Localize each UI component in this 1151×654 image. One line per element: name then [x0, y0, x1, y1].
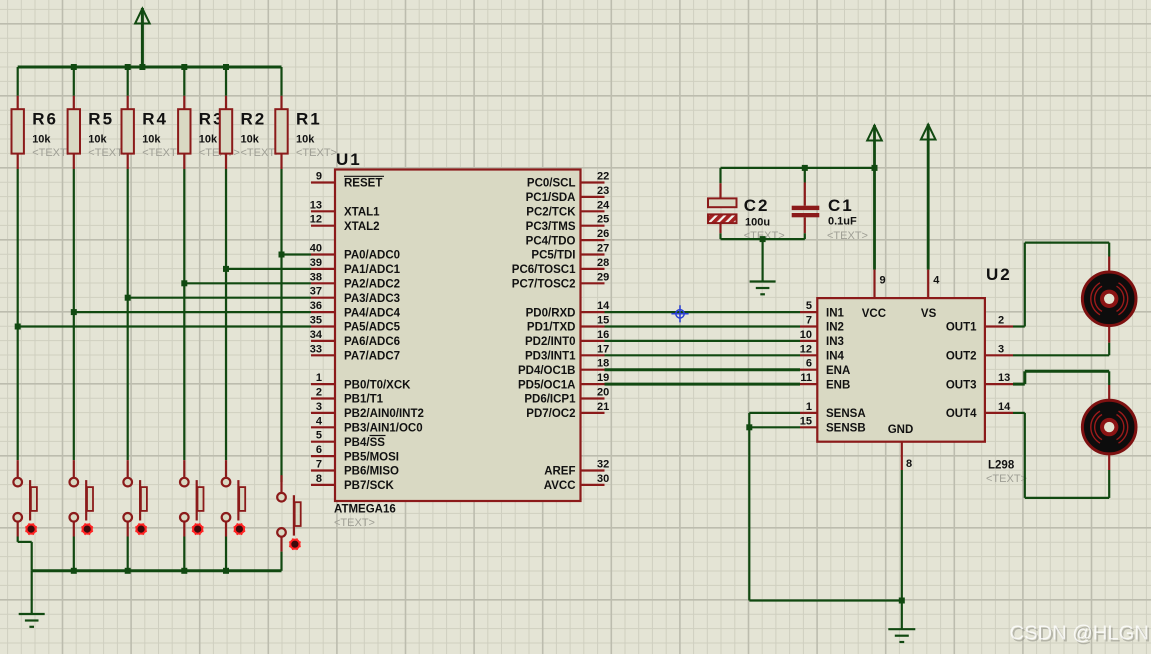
- svg-text:2: 2: [998, 315, 1004, 327]
- svg-text:100u: 100u: [745, 217, 770, 229]
- svg-text:PD7/OC2: PD7/OC2: [526, 408, 575, 420]
- svg-text:7: 7: [806, 315, 812, 327]
- svg-text:GND: GND: [888, 424, 914, 436]
- svg-text:<TEXT>: <TEXT>: [827, 230, 868, 242]
- svg-text:ENB: ENB: [826, 379, 850, 391]
- svg-text:7: 7: [316, 459, 322, 471]
- svg-text:PC2/TCK: PC2/TCK: [526, 207, 576, 219]
- svg-text:5: 5: [316, 430, 322, 442]
- svg-text:PD2/INT0: PD2/INT0: [525, 336, 576, 348]
- svg-text:ATMEGA16: ATMEGA16: [334, 504, 396, 516]
- svg-text:5: 5: [806, 300, 812, 312]
- svg-text:PC6/TOSC1: PC6/TOSC1: [512, 264, 576, 276]
- svg-text:25: 25: [597, 214, 609, 226]
- svg-text:OUT1: OUT1: [946, 322, 977, 334]
- svg-text:21: 21: [597, 401, 609, 413]
- svg-text:ENA: ENA: [826, 365, 850, 377]
- svg-text:10k: 10k: [199, 133, 218, 145]
- svg-text:10k: 10k: [241, 133, 260, 145]
- svg-text:C2: C2: [744, 196, 770, 215]
- svg-text:1: 1: [806, 401, 812, 413]
- svg-text:11: 11: [800, 372, 812, 384]
- svg-text:13: 13: [998, 372, 1010, 384]
- svg-text:35: 35: [310, 315, 322, 327]
- svg-text:PA5/ADC5: PA5/ADC5: [344, 322, 401, 334]
- svg-text:OUT4: OUT4: [946, 408, 977, 420]
- svg-text:3: 3: [998, 343, 1004, 355]
- svg-text:9: 9: [880, 275, 886, 287]
- svg-text:PA3/ADC3: PA3/ADC3: [344, 293, 400, 305]
- svg-text:34: 34: [310, 329, 323, 341]
- svg-text:OUT3: OUT3: [946, 379, 977, 391]
- svg-text:24: 24: [597, 199, 610, 211]
- svg-text:30: 30: [597, 473, 609, 485]
- svg-text:20: 20: [597, 387, 609, 399]
- svg-text:<TEXT>: <TEXT>: [296, 147, 337, 159]
- svg-text:17: 17: [597, 343, 609, 355]
- svg-text:13: 13: [310, 199, 322, 211]
- svg-text:10k: 10k: [88, 133, 107, 145]
- svg-text:PD1/TXD: PD1/TXD: [527, 322, 576, 334]
- svg-text:<TEXT>: <TEXT>: [986, 473, 1027, 485]
- svg-text:26: 26: [597, 228, 609, 240]
- svg-text:10k: 10k: [296, 133, 315, 145]
- svg-text:OUT2: OUT2: [946, 351, 977, 363]
- svg-text:XTAL2: XTAL2: [344, 221, 380, 233]
- svg-text:36: 36: [310, 300, 322, 312]
- svg-text:PA6/ADC6: PA6/ADC6: [344, 336, 400, 348]
- svg-text:19: 19: [597, 372, 609, 384]
- svg-text:AVCC: AVCC: [544, 480, 576, 492]
- svg-text:R5: R5: [88, 110, 114, 129]
- svg-text:PA1/ADC1: PA1/ADC1: [344, 264, 401, 276]
- svg-text:PA0/ADC0: PA0/ADC0: [344, 250, 400, 262]
- svg-text:PB0/T0/XCK: PB0/T0/XCK: [344, 379, 411, 391]
- svg-text:PC4/TDO: PC4/TDO: [526, 235, 576, 247]
- svg-text:12: 12: [800, 343, 812, 355]
- svg-text:PB1/T1: PB1/T1: [344, 394, 384, 406]
- svg-text:PD4/OC1B: PD4/OC1B: [518, 365, 576, 377]
- svg-text:39: 39: [310, 257, 322, 269]
- svg-text:XTAL1: XTAL1: [344, 207, 380, 219]
- svg-text:IN4: IN4: [826, 351, 845, 363]
- svg-text:29: 29: [597, 271, 609, 283]
- svg-text:0.1uF: 0.1uF: [828, 216, 857, 228]
- svg-text:PB6/MISO: PB6/MISO: [344, 466, 399, 478]
- svg-text:PD5/OC1A: PD5/OC1A: [518, 379, 576, 391]
- svg-text:15: 15: [597, 315, 609, 327]
- svg-text:37: 37: [310, 286, 322, 298]
- svg-text:10k: 10k: [32, 133, 51, 145]
- svg-text:PC3/TMS: PC3/TMS: [526, 221, 576, 233]
- svg-text:PD0/RXD: PD0/RXD: [526, 307, 576, 319]
- svg-text:PC0/SCL: PC0/SCL: [527, 178, 576, 190]
- svg-text:L298: L298: [988, 460, 1015, 472]
- svg-text:R6: R6: [32, 110, 58, 129]
- svg-text:14: 14: [998, 401, 1011, 413]
- svg-text:PD6/ICP1: PD6/ICP1: [524, 394, 576, 406]
- svg-text:40: 40: [310, 243, 322, 255]
- svg-text:PC5/TDI: PC5/TDI: [531, 250, 575, 262]
- svg-text:CSDN @HLGN: CSDN @HLGN: [1010, 623, 1149, 645]
- svg-text:16: 16: [597, 329, 609, 341]
- svg-text:6: 6: [806, 358, 812, 370]
- svg-text:9: 9: [316, 171, 322, 183]
- svg-text:2: 2: [316, 387, 322, 399]
- svg-text:SENSB: SENSB: [826, 423, 866, 435]
- svg-text:PA4/ADC4: PA4/ADC4: [344, 307, 401, 319]
- svg-text:IN1: IN1: [826, 307, 845, 319]
- svg-text:6: 6: [316, 444, 322, 456]
- svg-text:<TEXT>: <TEXT>: [334, 517, 375, 529]
- svg-text:PA7/ADC7: PA7/ADC7: [344, 351, 400, 363]
- svg-text:PB7/SCK: PB7/SCK: [344, 480, 395, 492]
- svg-text:28: 28: [597, 257, 609, 269]
- svg-text:27: 27: [597, 243, 609, 255]
- svg-text:IN3: IN3: [826, 336, 844, 348]
- svg-text:15: 15: [800, 415, 812, 427]
- svg-text:AREF: AREF: [544, 466, 575, 478]
- svg-text:C1: C1: [828, 196, 854, 215]
- svg-text:U1: U1: [336, 150, 362, 169]
- svg-text:IN2: IN2: [826, 322, 844, 334]
- svg-text:PA2/ADC2: PA2/ADC2: [344, 279, 400, 291]
- svg-text:10: 10: [800, 329, 812, 341]
- svg-text:18: 18: [597, 358, 609, 370]
- svg-text:PB3/AIN1/OC0: PB3/AIN1/OC0: [344, 423, 423, 435]
- svg-text:32: 32: [597, 459, 609, 471]
- svg-text:23: 23: [597, 185, 609, 197]
- svg-text:3: 3: [316, 401, 322, 413]
- svg-text:PB2/AIN0/INT2: PB2/AIN0/INT2: [344, 408, 424, 420]
- svg-text:U2: U2: [986, 265, 1012, 284]
- svg-text:VS: VS: [921, 308, 937, 320]
- svg-text:22: 22: [597, 171, 609, 183]
- svg-text:14: 14: [597, 300, 610, 312]
- svg-text:R2: R2: [241, 110, 267, 129]
- svg-text:33: 33: [310, 343, 322, 355]
- svg-text:4: 4: [316, 415, 323, 427]
- svg-text:PB5/MOSI: PB5/MOSI: [344, 451, 399, 463]
- svg-text:8: 8: [906, 458, 912, 470]
- svg-text:R4: R4: [142, 110, 168, 129]
- svg-text:38: 38: [310, 271, 322, 283]
- svg-text:<TEXT>: <TEXT>: [142, 147, 183, 159]
- svg-text:10k: 10k: [142, 133, 161, 145]
- svg-text:PC7/TOSC2: PC7/TOSC2: [512, 279, 576, 291]
- svg-text:4: 4: [933, 275, 940, 287]
- svg-text:PB4/SS: PB4/SS: [344, 437, 385, 449]
- svg-text:PC1/SDA: PC1/SDA: [526, 192, 576, 204]
- svg-text:12: 12: [310, 214, 322, 226]
- svg-text:RESET: RESET: [344, 178, 382, 190]
- svg-text:1: 1: [316, 372, 322, 384]
- svg-text:R1: R1: [296, 110, 322, 129]
- svg-text:SENSA: SENSA: [826, 408, 866, 420]
- svg-text:8: 8: [316, 473, 322, 485]
- svg-text:VCC: VCC: [862, 308, 886, 320]
- svg-text:PD3/INT1: PD3/INT1: [525, 351, 576, 363]
